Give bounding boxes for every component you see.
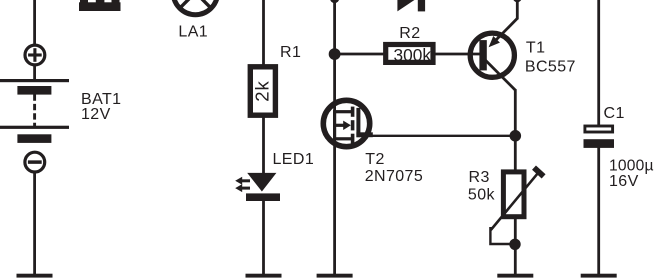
junction dot top edge — [330, 0, 339, 3]
junction dot gate node — [510, 130, 522, 142]
diode fragment top — [397, 0, 425, 11]
junction dot R2 tap — [329, 48, 341, 60]
svg-text:50k: 50k — [468, 186, 496, 203]
svg-text:12V: 12V — [81, 106, 111, 123]
ground LED1 — [246, 274, 282, 278]
svg-text:2k: 2k — [252, 80, 273, 102]
wire LED1 bottom — [262, 199, 265, 275]
ground R3 — [497, 274, 533, 278]
wire R1 top — [262, 0, 265, 66]
wire C1 top — [597, 0, 600, 126]
resistor R2 — [386, 45, 433, 63]
wiper wire — [490, 227, 511, 244]
wire plus to plate — [33, 65, 36, 80]
wire T2 bottom — [333, 139, 336, 275]
svg-text:BC557: BC557 — [525, 59, 576, 76]
svg-text:LED1: LED1 — [273, 151, 315, 168]
junction dot emitter top — [513, 0, 522, 2]
MOSFET T2 — [323, 100, 373, 146]
potentiometer R3 — [491, 168, 544, 230]
wire node to R3 — [514, 136, 517, 172]
junction dot wiper — [509, 239, 520, 250]
wire to R2 — [335, 53, 384, 56]
svg-text:R3: R3 — [469, 169, 490, 186]
battery minus terminal — [25, 152, 45, 172]
svg-text:C1: C1 — [604, 105, 625, 122]
svg-text:R2: R2 — [399, 25, 420, 42]
ground C1 — [581, 274, 617, 278]
battery BAT1 — [0, 79, 69, 143]
capacitor C1 — [584, 126, 615, 148]
wire gate to node — [371, 135, 515, 137]
battery plus terminal — [25, 45, 45, 65]
transistor T1 — [470, 0, 517, 137]
wire battery top — [33, 0, 36, 45]
svg-text:16V: 16V — [609, 173, 639, 190]
svg-text:300k: 300k — [394, 45, 432, 65]
svg-text:R1: R1 — [280, 44, 301, 61]
relay fragment top left — [79, 0, 121, 11]
svg-text:2N7075: 2N7075 — [365, 168, 423, 185]
svg-text:LA1: LA1 — [178, 23, 208, 40]
lamp LA1 — [173, 0, 217, 15]
battery cell dashed line — [33, 95, 36, 127]
resistor R1 — [250, 67, 275, 115]
ground battery — [17, 274, 53, 278]
wire R3 bottom — [514, 219, 517, 275]
LED LED1 — [235, 173, 280, 201]
svg-text:T1: T1 — [526, 40, 545, 57]
ground T2 — [317, 274, 353, 278]
wire T2 column top — [333, 0, 336, 112]
wire R2 to T1 base — [434, 53, 483, 56]
wire R1 to LED1 — [262, 116, 265, 175]
svg-text:T2: T2 — [365, 151, 384, 168]
wire C1 bottom — [597, 148, 600, 276]
wire battery bottom — [33, 172, 36, 275]
